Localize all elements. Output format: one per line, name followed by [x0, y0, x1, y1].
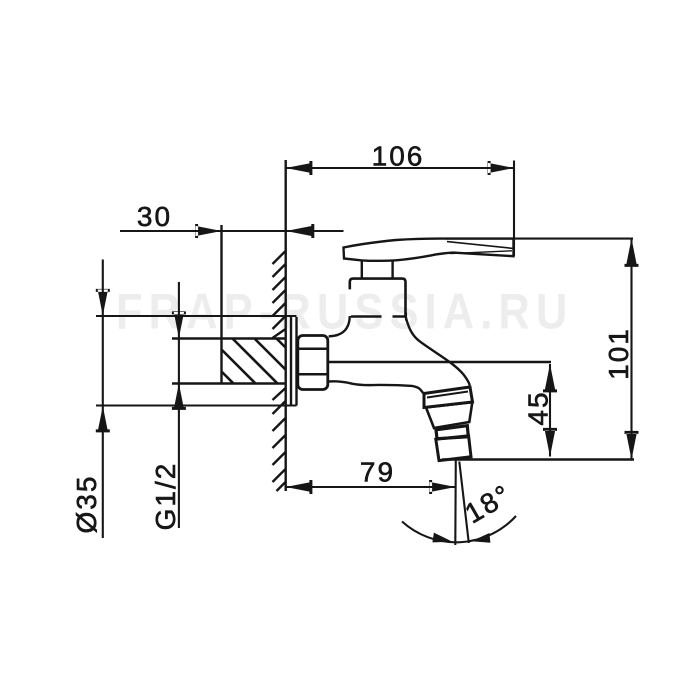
svg-text:45: 45: [523, 390, 554, 425]
dimension 30 line: [120, 230, 344, 232]
dimension 30 right arrow: [286, 224, 314, 238]
escutcheon flange right edge: [295, 317, 297, 406]
handle outline: [344, 239, 514, 261]
dimension 79 left arrow: [286, 480, 313, 494]
spout band 1 inner line: [427, 392, 468, 398]
wall hatching lower: [273, 388, 286, 491]
body right contour arc to spout: [406, 316, 470, 385]
svg-text:G1/2: G1/2: [150, 462, 181, 531]
dimension G1/2 bottom arrow: [172, 384, 186, 410]
angle vertical reference line: [454, 458, 457, 546]
angle arc left arrow: [432, 533, 452, 543]
angle arc: [402, 516, 516, 542]
spout band 3: [436, 426, 468, 439]
svg-text:101: 101: [603, 327, 634, 380]
handle stem right: [391, 260, 393, 278]
angle slanted line 18 deg: [459, 462, 469, 544]
bonnet cap top: [350, 279, 406, 316]
bonnet joint end tick: [405, 313, 407, 321]
dimension 45 top arrow: [543, 364, 557, 392]
dimension 79 line: [286, 486, 456, 488]
spout axis line (45 top extension): [329, 361, 551, 364]
svg-text:18°: 18°: [460, 478, 517, 529]
dimension G1/2 line: [178, 282, 180, 528]
spout band 1: [424, 387, 473, 408]
shank top line: [172, 337, 286, 339]
spout band 2: [426, 402, 472, 428]
dimension 79 right arrow: [429, 480, 455, 494]
handle inner lower line: [450, 251, 512, 254]
nut facet line lower: [299, 373, 328, 376]
dimension 101 line: [630, 239, 632, 460]
bonnet joint line: [351, 315, 406, 317]
escutcheon flange left edge: [290, 317, 292, 406]
flange bottom extension line: [96, 404, 297, 406]
svg-text:30: 30: [137, 201, 172, 232]
bottom reference line: [442, 458, 634, 460]
dimension 106 line: [286, 167, 514, 169]
dimension D35 line: [102, 260, 104, 539]
wall hatching upper: [273, 251, 286, 338]
dimension 101 bottom arrow: [625, 431, 639, 460]
dimension 106 left arrow: [286, 161, 313, 175]
dimension 30 left arrow: [195, 224, 221, 238]
svg-text:106: 106: [372, 141, 425, 172]
flange top extension line: [96, 315, 297, 317]
dimension 101 top arrow: [625, 239, 639, 267]
handle stem left: [361, 261, 363, 279]
shank bottom line: [172, 382, 286, 384]
nut facet line upper: [299, 348, 328, 351]
svg-text:Ø35: Ø35: [71, 475, 102, 534]
dimension D35 bottom arrow: [96, 406, 110, 432]
dimension 45 line: [549, 364, 551, 457]
dimension 45 bottom arrow: [543, 428, 557, 457]
dimension 106 right arrow: [488, 161, 514, 175]
spout band 4 outlet: [436, 436, 471, 461]
nut outline: [298, 336, 328, 390]
dimension 106 right extension line: [513, 161, 515, 257]
body bottom contour: [329, 381, 424, 393]
handle inner bevel line: [447, 242, 513, 249]
101 top extension line: [445, 238, 633, 240]
angle arc right arrow: [471, 533, 490, 543]
dimension G1/2 top arrow: [172, 311, 186, 338]
body left flare to nut: [329, 316, 350, 336]
dimension D35 top arrow: [96, 289, 110, 316]
svg-text:79: 79: [360, 457, 395, 488]
dimension 30 left extension line / shank left end: [220, 225, 222, 384]
shank cross-hatch block: [222, 339, 286, 384]
wall face line: [285, 160, 287, 491]
